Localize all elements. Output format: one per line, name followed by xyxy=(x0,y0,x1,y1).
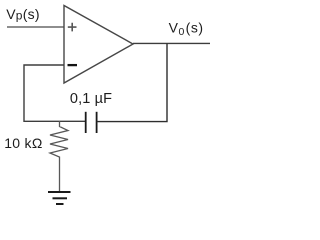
wire: Vp(s) input to op-amp non-inverting input xyxy=(7,26,64,28)
svg-text:Vp(s): Vp(s) xyxy=(6,6,40,23)
op-amp non-inverting input marker (+) xyxy=(68,23,77,32)
wire: op-amp output to V0(s) xyxy=(133,42,210,44)
wire: capacitor right plate to output node xyxy=(97,43,167,121)
capacitor C1 xyxy=(86,112,97,133)
svg-text:10 kΩ: 10 kΩ xyxy=(4,135,42,151)
ground xyxy=(48,192,71,204)
resistor R1 xyxy=(50,121,68,192)
wire: inverting input to left vertical feedback branch xyxy=(24,65,85,121)
svg-text:V0(s): V0(s) xyxy=(169,20,204,38)
op-amp inverting input marker (-) xyxy=(68,64,78,66)
svg-text:0,1 µF: 0,1 µF xyxy=(70,91,112,107)
op-amp U1 xyxy=(64,6,133,84)
